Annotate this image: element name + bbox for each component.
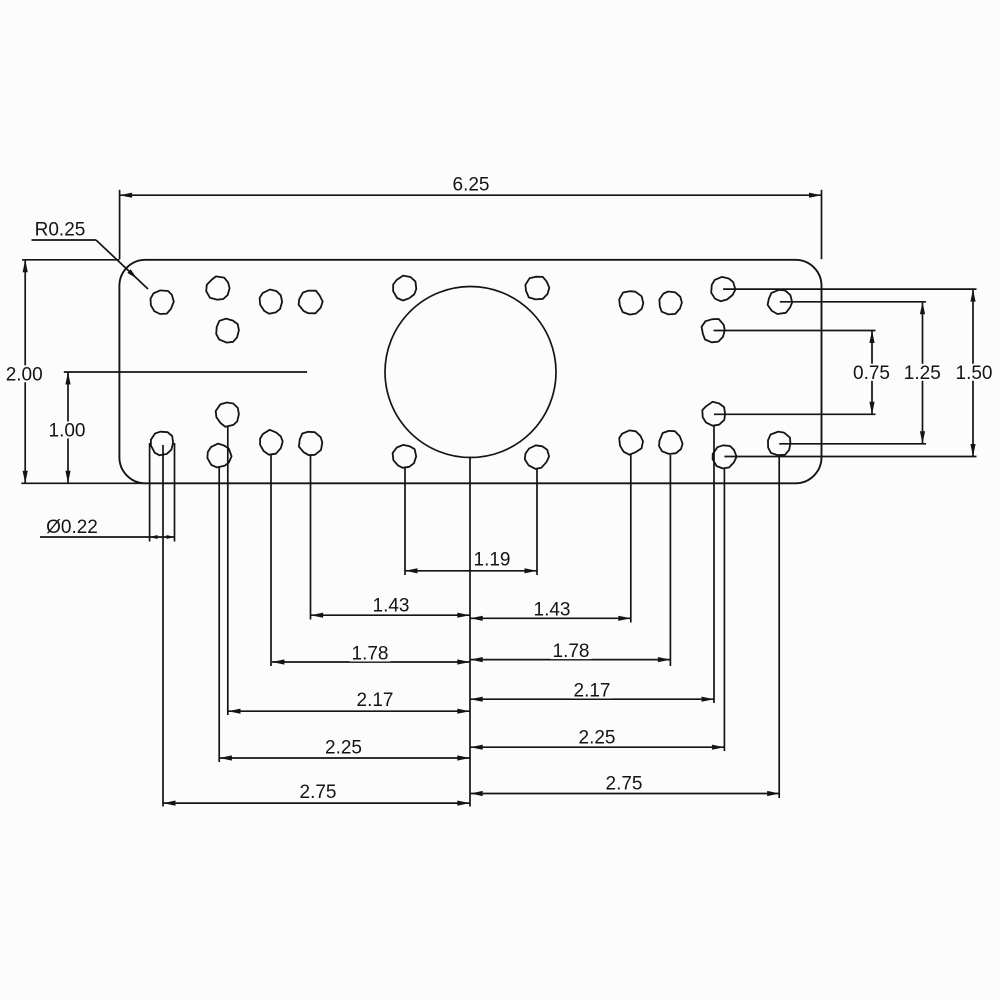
- dimension 1.78 left line: [272, 661, 470, 663]
- hole H1 at (162,302): [151, 290, 174, 314]
- hole H10 at (723.1,289.1): [711, 277, 735, 301]
- dimension 2.25 right line: [470, 746, 724, 748]
- hole H14 at (227.8,414.3): [216, 403, 239, 427]
- hole H3 at (227.5,330.5): [216, 319, 239, 343]
- svg-text:2.25: 2.25: [325, 738, 362, 759]
- svg-text:1.25: 1.25: [904, 363, 941, 384]
- extension line from hole H14: [227, 426, 229, 715]
- hole H6 at (404.6,288): [393, 276, 416, 301]
- label 6.25: [451, 176, 492, 193]
- label 1.50: [954, 364, 995, 381]
- label 0.75: [851, 364, 892, 381]
- label 2.25 right: [577, 729, 618, 746]
- center reference line: [64, 371, 307, 373]
- dimension 2.75 left line: [163, 802, 470, 804]
- hole H17 at (310.5,443): [299, 432, 322, 455]
- label 1.78 right: [551, 642, 592, 659]
- dimension 1.78 right line: [470, 659, 670, 661]
- hole H21 at (670.4,443): [659, 431, 683, 454]
- extension line from hole H23: [723, 469, 725, 752]
- dimension 1.50 line: [972, 289, 974, 456]
- hole H5 at (310.5,302): [299, 291, 323, 314]
- hole H24 at (779.2,443.8): [768, 432, 790, 456]
- connector from hole H11 to 1.25 top: [780, 301, 926, 303]
- connector from hole H10 to 1.50 top: [723, 288, 976, 290]
- dimension 2.17 right line: [470, 698, 714, 700]
- svg-text:2.17: 2.17: [357, 690, 394, 711]
- svg-text:R0.25: R0.25: [35, 220, 86, 241]
- extension line from hole H15: [218, 467, 220, 762]
- dimension 1.25 line: [922, 302, 924, 444]
- connector from hole H22 to 0.75 bottom: [714, 413, 876, 415]
- hole H13 at (162,443): [151, 432, 173, 456]
- dimension 1.19 line: [405, 570, 537, 572]
- svg-text:0.75: 0.75: [853, 363, 890, 384]
- connector from hole H23 to 1.50 bottom: [724, 456, 976, 458]
- label 1.25: [902, 364, 943, 381]
- label 2.75 left: [298, 783, 339, 800]
- hole H8 at (630.8,302.6): [619, 291, 643, 314]
- svg-text:2.25: 2.25: [579, 728, 616, 749]
- svg-text:2.75: 2.75: [300, 782, 337, 803]
- dimension 1.00 line: [67, 372, 69, 483]
- label 1.43 left: [371, 597, 412, 614]
- dimension 2.17 left line: [228, 710, 470, 712]
- dimension 6.25 line: [120, 194, 822, 196]
- hole H9 at (670.4,302.6): [659, 292, 682, 315]
- label 2.00: [4, 365, 45, 382]
- svg-text:1.43: 1.43: [373, 596, 410, 617]
- dimension 6.25 extension line right: [821, 190, 823, 259]
- extension line from hole H18: [404, 468, 406, 575]
- label 2.25 left: [323, 739, 364, 756]
- connector from hole H24 to 1.25 bottom: [779, 443, 926, 445]
- dimension 1.43 right line: [470, 617, 631, 619]
- svg-text:2.17: 2.17: [574, 681, 611, 702]
- hole H20 at (630.8,442.2): [619, 430, 643, 454]
- hole H2 at (218.5,288.5): [206, 276, 229, 299]
- extension line from hole H22: [713, 426, 715, 703]
- label 1.43 right: [532, 601, 573, 618]
- hole H19 at (536.8,456.5): [525, 445, 549, 469]
- svg-text:Ø0.22: Ø0.22: [46, 517, 98, 538]
- hole H12 at (713.6,330.5): [702, 319, 725, 342]
- dimension 0.75 line: [871, 331, 873, 415]
- label R0.25: [34, 221, 86, 238]
- hole H4 at (271,302): [260, 290, 283, 314]
- svg-text:2.00: 2.00: [6, 364, 43, 385]
- label 1.19: [472, 551, 513, 568]
- hole H7 at (537,288): [525, 277, 549, 300]
- dimension 2.00 top extension line: [22, 259, 119, 261]
- svg-text:1.19: 1.19: [474, 550, 511, 571]
- hole H23 at (724.4,456.5): [713, 445, 737, 468]
- dimension 6.25 extension line left: [119, 190, 121, 259]
- svg-text:1.50: 1.50: [956, 363, 993, 384]
- svg-text:6.25: 6.25: [453, 175, 490, 196]
- extension line center line from circle bottom: [469, 457, 471, 807]
- extension line from hole H21: [669, 455, 671, 666]
- label 1.78 left: [350, 645, 391, 662]
- extension line from hole H20: [630, 454, 632, 623]
- hole H16 at (271,442.3): [260, 430, 283, 455]
- extension line from hole H24: [778, 456, 780, 799]
- hole H18 at (404.8,456.5): [393, 445, 417, 468]
- plate outline (rounded rectangle 6.25 x 2.00): [119, 260, 821, 484]
- radius leader line: [32, 239, 97, 241]
- hole diameter tangent line right: [174, 443, 176, 542]
- dimension 2.00 bottom extension line: [21, 482, 146, 484]
- hole diameter tangent line left: [149, 443, 151, 542]
- dimension 2.25 left line: [219, 757, 469, 759]
- svg-text:1.00: 1.00: [49, 421, 86, 442]
- svg-text:1.78: 1.78: [352, 644, 389, 665]
- label 2.17 right: [572, 682, 613, 699]
- dimension 2.75 right line: [470, 793, 780, 795]
- label diameter 0.22: [45, 518, 99, 535]
- label 2.17 left: [355, 691, 396, 708]
- dimension 1.43 left line: [311, 614, 470, 616]
- svg-text:2.75: 2.75: [606, 774, 643, 795]
- extension line from hole H16: [270, 454, 272, 666]
- label 2.75 right: [604, 775, 645, 792]
- extension line from hole H17: [310, 455, 312, 620]
- hole H22 at (714,414.3): [702, 402, 725, 426]
- connector from hole H12 to 0.75 top: [714, 330, 876, 332]
- label 1.00: [47, 422, 88, 439]
- hole H11 at (779.8,301.8): [768, 290, 793, 314]
- svg-text:1.78: 1.78: [553, 641, 590, 662]
- radius leader arrow: [127, 269, 137, 278]
- dimension 2.00 line: [24, 260, 26, 484]
- svg-text:1.43: 1.43: [534, 600, 571, 621]
- extension line from hole H13: [162, 445, 164, 807]
- diameter leader line: [40, 536, 175, 538]
- hole H15 at (219.2,455.5): [207, 444, 231, 468]
- big center circle: [385, 287, 556, 458]
- extension line from hole H19: [536, 468, 538, 575]
